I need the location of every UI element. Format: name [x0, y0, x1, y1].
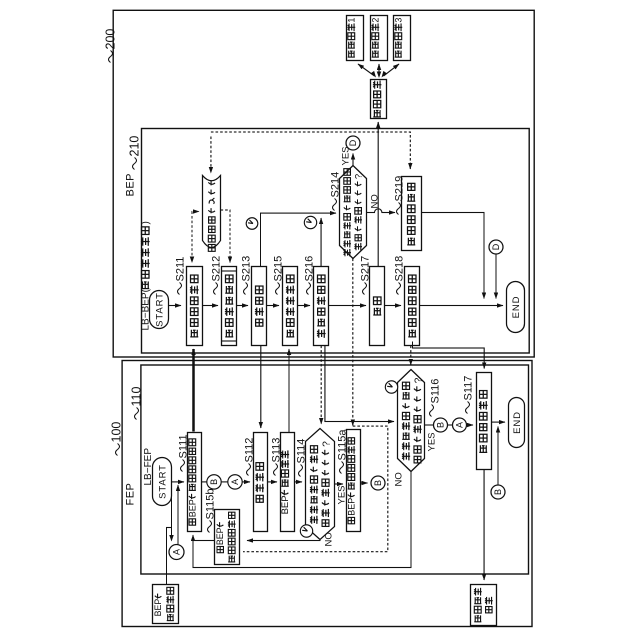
dashed wire S211 to reservation file (both arrows)	[192, 212, 199, 261]
svg-text:200: 200	[104, 29, 118, 50]
wire S214 YES to connector D1	[352, 154, 354, 166]
svg-text:D: D	[491, 243, 501, 250]
wire S117 to keisan shori jikko	[483, 470, 485, 581]
stored-data file yoyaku hoji file	[203, 176, 221, 248]
wire S112 to S113	[268, 481, 278, 483]
svg-text:3: 3	[393, 18, 403, 23]
svg-text:2: 2	[370, 18, 380, 23]
svg-text:?: ?	[413, 377, 424, 383]
wire S114 YES to S115a	[335, 483, 344, 485]
process S218 keisan kekka soshin	[405, 267, 420, 346]
wire S116 YES to S117 through connectors B A	[425, 424, 474, 426]
svg-text:S114: S114	[296, 439, 308, 464]
svg-text:B: B	[209, 479, 219, 485]
label ~S114	[299, 465, 303, 477]
process shokeisanki 3	[394, 16, 411, 61]
svg-text:YES: YES	[337, 485, 348, 504]
wire keisan jikko to shokeisanki3 (double arrow)	[384, 64, 400, 76]
predefined process S212 keisan yoryoku kakunin	[222, 267, 237, 346]
svg-text:START: START	[154, 292, 165, 327]
process S112 oto jushin	[254, 433, 268, 532]
wire S117 to END	[492, 421, 506, 423]
svg-text:S211: S211	[175, 257, 187, 282]
label ~S219	[397, 203, 401, 215]
process S213 oto soshin	[252, 267, 267, 346]
svg-text:BEP: BEP	[280, 495, 291, 514]
decision S116 hexagon taiki jikan nai ni keisan kekka	[398, 370, 425, 472]
label ~S212	[214, 283, 218, 295]
svg-text:S113: S113	[271, 438, 283, 463]
clock symbol near S116	[385, 381, 397, 393]
label ~S113	[274, 464, 278, 476]
connector D2	[489, 240, 503, 254]
wire S216 to S116 top edge (solid crossing)	[325, 346, 394, 422]
svg-text:S112: S112	[244, 438, 256, 463]
label ~S214	[333, 199, 337, 211]
wire S217 to keisan jikko	[377, 122, 379, 267]
terminator START (BEP)	[150, 291, 169, 329]
process keisan shori jikko (outside inner frame)	[471, 585, 497, 626]
svg-text:?: ?	[321, 441, 332, 447]
svg-text:A: A	[172, 549, 182, 555]
svg-text:A: A	[230, 479, 240, 485]
clock symbol near S114	[300, 525, 312, 537]
process keisan jikko	[371, 80, 387, 119]
wire S218 to END	[420, 305, 504, 307]
wire S213 to S112 (response message)	[260, 346, 262, 429]
wire S113 to S114	[295, 481, 303, 483]
wire START to S211	[169, 305, 182, 307]
svg-text:1: 1	[346, 18, 356, 23]
dashed wire branch S115b to S214 path	[243, 426, 388, 552]
process S211 keisan yoyaku jushin	[187, 267, 203, 346]
wire connector A2 into START-S111 line	[177, 485, 179, 545]
bold wire S111 to S211 (reservation message)	[192, 349, 195, 432]
wire S211 to S212	[203, 305, 219, 307]
label ~S213	[244, 283, 248, 295]
frame system 200 (BEP outer)	[113, 10, 534, 357]
svg-text:B: B	[436, 422, 446, 428]
connector A1 inline	[228, 475, 242, 489]
svg-text:): )	[141, 221, 152, 224]
label ~S216	[307, 283, 311, 295]
label ~S115b	[208, 521, 212, 533]
label ~S217	[363, 283, 367, 295]
label ~S111	[181, 460, 185, 472]
svg-text:NO: NO	[394, 472, 405, 486]
label ~S211	[178, 283, 182, 295]
process S219 keisan yoyaku sakujo	[402, 177, 422, 251]
svg-text:D: D	[348, 139, 358, 146]
dashed wire file to S219 (bracket, both arrows)	[211, 132, 410, 169]
process S215 keisan irai jushin	[283, 267, 298, 346]
frame FEP inner 110	[141, 365, 529, 574]
process S217 keisan	[370, 267, 385, 346]
svg-text:S115a: S115a	[337, 429, 349, 461]
decision S214 hexagon taiki jikan nai ni keisan yoyaku torikeshi	[340, 166, 367, 259]
label ~S218	[397, 283, 401, 295]
dashed wire S218 to S116 right point (result message)	[410, 346, 412, 366]
process S115a zen BEP ni keisan yoyaku torikeshi	[347, 430, 361, 532]
process S115b zen BEP ni keisan yoyaku torikeshi	[215, 510, 240, 565]
process shokeisanki 1	[347, 16, 364, 61]
svg-text:NO: NO	[324, 532, 335, 546]
svg-text:BEP: BEP	[215, 527, 225, 545]
label ~S115a	[340, 462, 344, 474]
connector D1	[346, 136, 360, 150]
wire connector B4 to END line	[497, 427, 499, 485]
svg-text:BEP: BEP	[153, 599, 163, 617]
wire junction down to A2	[171, 482, 173, 541]
svg-text:NO: NO	[370, 194, 381, 208]
clock symbol near S213 exit	[246, 218, 258, 230]
label ~S116	[430, 405, 434, 417]
svg-text:?: ?	[354, 174, 365, 179]
wire S218 to S117 (result, solid crossing)	[413, 342, 485, 369]
svg-text:S214: S214	[330, 172, 342, 198]
dashed wire S216 to S114 right point (receipt response)	[320, 346, 322, 425]
process shokeisanki 2	[371, 16, 388, 61]
svg-text:START: START	[157, 464, 168, 499]
wire S116 NO loop back to S111	[193, 472, 411, 568]
label ~S117	[466, 402, 470, 414]
wire S216 join to S214 feed	[320, 218, 322, 267]
label ~210	[133, 158, 137, 170]
process S117 keisan kekka jushin	[477, 373, 492, 470]
connector B2 below S115a	[371, 476, 385, 490]
svg-text:FEP: FEP	[125, 483, 137, 506]
wire S115b to S111 input	[193, 540, 215, 542]
wire S216 to S217	[329, 305, 367, 307]
svg-text:210: 210	[128, 136, 142, 157]
wire S212 to S213	[237, 305, 249, 307]
svg-text:END: END	[511, 296, 522, 319]
svg-text:100: 100	[110, 422, 124, 443]
wire S214 NO to S219	[367, 209, 396, 213]
svg-text:S215: S215	[273, 256, 285, 282]
wire S217 to S218	[385, 305, 402, 307]
decision S114 hexagon taiki jikan nai ni jushin oto	[306, 429, 335, 540]
svg-text:BEP: BEP	[187, 499, 197, 517]
wire START to S111	[172, 481, 185, 483]
clock symbol near S216 exit	[304, 216, 316, 228]
connector B3 inline before S117	[434, 418, 448, 432]
svg-text:B: B	[493, 489, 503, 495]
wire keisan jikko to shokeisanki1 (double arrow)	[358, 64, 375, 76]
wire S114 NO loop to S115b	[247, 540, 320, 541]
dashed wire file to S212 (read reservations)	[221, 210, 231, 263]
process S113 BEP e keisan irai	[281, 433, 295, 532]
wire S213 to S215	[267, 305, 280, 307]
svg-text:YES: YES	[427, 432, 438, 451]
wire BEP-ni-keisan-yokyu to flow	[167, 528, 172, 585]
label ~110	[135, 408, 139, 420]
wire keisan jikko to shokeisanki2 (double arrow)	[378, 64, 380, 76]
connector A3 inline before S117	[453, 418, 467, 432]
dashed wire S214 to S115a (cancel message)	[352, 259, 354, 426]
process S216 juryo oto soshin	[314, 267, 329, 346]
svg-text:BEP: BEP	[346, 498, 356, 516]
svg-text:S213: S213	[241, 256, 253, 282]
connector A2 near START	[169, 545, 184, 560]
svg-text:S117: S117	[463, 376, 475, 401]
label ~200	[109, 51, 113, 63]
svg-text:B: B	[373, 480, 383, 486]
terminator START (FEP)	[153, 458, 172, 506]
label ~S112	[247, 464, 251, 476]
svg-text:S115b: S115b	[205, 489, 217, 520]
svg-text:S111: S111	[178, 434, 190, 458]
frame BEP inner 210	[142, 129, 530, 354]
svg-text:A: A	[455, 422, 465, 428]
svg-text:S216: S216	[304, 256, 316, 282]
label ~100	[116, 444, 120, 456]
svg-text:S116: S116	[430, 379, 442, 404]
wire S215 to S216	[298, 305, 311, 307]
label ~S215	[276, 283, 280, 295]
connector B4 bottom	[491, 485, 505, 499]
svg-text:END: END	[512, 411, 523, 434]
svg-text:S217: S217	[360, 256, 372, 282]
frame system 100 (FEP outer)	[122, 361, 532, 627]
process BEP ni keisan yokyu (outside inner frame)	[153, 585, 179, 624]
wire S111 to S112 through connectors B A	[202, 481, 251, 483]
svg-text:S219: S219	[394, 176, 406, 202]
wire S115a to connector B2	[361, 482, 368, 484]
wire S113 to S215 (calc request message)	[288, 349, 290, 434]
wire S219 to main line before END	[422, 213, 485, 299]
svg-text:S218: S218	[394, 256, 406, 282]
wire S213 detour to S214 top	[261, 213, 337, 266]
process S111 zen BEP ni keisan yoyaku soshin	[188, 433, 202, 532]
terminator END (FEP)	[509, 398, 525, 448]
svg-text:YES: YES	[341, 146, 352, 165]
svg-text:S212: S212	[211, 256, 223, 282]
terminator END (BEP)	[507, 282, 525, 333]
svg-text:110: 110	[130, 387, 144, 407]
svg-text:BEP: BEP	[125, 173, 137, 197]
wire D2 to main line before END	[495, 254, 497, 299]
connector B1 inline	[207, 475, 221, 489]
